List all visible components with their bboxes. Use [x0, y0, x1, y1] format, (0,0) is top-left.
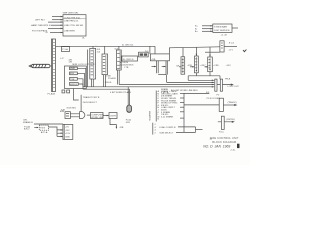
check mark annotation: [243, 50, 246, 52]
svg-text:42B: 42B: [61, 109, 65, 111]
F text: [91, 114, 104, 119]
P1 strip label: [48, 92, 56, 95]
E inner line: [63, 124, 65, 139]
svg-text:L-P: L-P: [60, 58, 64, 60]
label above long bus: [105, 82, 113, 84]
P1 strip inner line: [52, 39, 54, 92]
collector wire: [188, 75, 220, 77]
wire into U1 pin3: [48, 21, 63, 23]
connector P2 bars: [215, 79, 217, 91]
svg-text:TRAJECTORY B: TRAJECTORY B: [83, 96, 100, 99]
wire U3 to right: [224, 46, 237, 48]
U1 divider: [63, 18, 86, 20]
svg-text:+5 -18: +5 -18: [221, 34, 228, 36]
J2 row wires: [178, 126, 196, 128]
svg-text:LINE CTRL 4/B SM: LINE CTRL 4/B SM: [64, 25, 83, 27]
weapon cable W2: [127, 105, 132, 112]
svg-text:-15V: -15V: [65, 130, 70, 132]
label P1-A4 rows: [24, 125, 31, 130]
long bus wire 4: [83, 86, 214, 88]
node label box P1-A: [62, 47, 70, 52]
M1a text: [70, 68, 75, 70]
label at long wire end: [206, 92, 210, 94]
svg-text:+5V: +5V: [65, 126, 69, 128]
C2 text: [123, 59, 134, 61]
box U3 small output module: [220, 41, 224, 52]
svg-text:COND TRK B 4L: COND TRK B 4L: [64, 17, 81, 19]
svg-text:GUN SEL: GUN SEL: [67, 108, 77, 110]
wire to dashed box: [34, 127, 38, 129]
svg-text:A7C-A: A7C-A: [41, 131, 48, 134]
box G counter: [109, 113, 117, 119]
and gate G1: [80, 112, 85, 119]
D2 dark cells: [140, 53, 148, 55]
wire C1b drop to bus line2: [166, 75, 168, 83]
T7 output wire: [209, 72, 211, 76]
arrow label into T5: [176, 66, 180, 68]
label CR1 FRAME: [23, 120, 33, 124]
arrow label into T6: [188, 65, 193, 67]
bus drop to T2: [104, 46, 106, 54]
svg-text:MXR B: MXR B: [70, 84, 77, 86]
T1 label: [97, 49, 101, 51]
svg-text:(TRACK): (TRACK): [228, 101, 237, 104]
svg-text:NO. D JAN 1969: NO. D JAN 1969: [203, 145, 230, 149]
wire arrow into C1b drop a: [152, 66, 156, 68]
T7 pin marks: [209, 59, 211, 68]
svg-text:41B 4L: 41B 4L: [105, 82, 113, 84]
M1b text: [70, 73, 74, 75]
arrowheads at U2 pins: [210, 25, 212, 32]
svg-text:LOAD COMPL B: LOAD COMPL B: [159, 126, 176, 129]
title small code: [231, 149, 237, 151]
connector K1 track: [219, 98, 223, 111]
big box M1 mixer block: [65, 66, 87, 89]
power labels top right: [195, 25, 198, 33]
W2 labels below: [126, 118, 131, 124]
box F computer word line: [91, 113, 104, 119]
title line 2: [212, 140, 237, 144]
long bus wire 2: [167, 81, 215, 83]
arrowhead at G: [107, 115, 109, 117]
T2 bottom wires: [104, 75, 106, 87]
label Eout: [229, 41, 234, 44]
bus drop to C1: [149, 46, 151, 54]
svg-text:+15V: +15V: [226, 65, 232, 67]
M1 bottom terminal b: [67, 90, 70, 93]
label (SPARE): [226, 119, 235, 121]
T6 pin marks: [195, 59, 197, 69]
J2 pin rows: [155, 124, 177, 135]
svg-text:LINE FREQ 2L: LINE FREQ 2L: [64, 21, 79, 23]
wire into U1 pin2: [52, 19, 63, 21]
bus drop to T6: [195, 47, 197, 56]
svg-text:+5 V: +5 V: [228, 49, 233, 51]
wire into U1 pin1: [52, 16, 63, 18]
K1 out arrowhead: [234, 104, 237, 106]
connector K2 spare: [221, 116, 224, 129]
T1 pin marks: [91, 51, 93, 76]
label LTB: [125, 67, 129, 69]
bus drop to T5: [182, 48, 184, 57]
wire into U2 pin2: [202, 28, 213, 30]
box P4 select: [65, 112, 70, 119]
svg-text:P 1-A: P 1-A: [62, 48, 68, 51]
svg-text:BLOCK DIAGRAM: BLOCK DIAGRAM: [212, 140, 237, 144]
main bus wire top: [56, 45, 156, 47]
wire second feed to U3: [205, 51, 220, 53]
M1 staircase wire 3: [77, 79, 83, 87]
K2 out arrowhead: [232, 121, 235, 123]
svg-text:LEFT RLY: LEFT RLY: [35, 20, 46, 22]
net label line6: [46, 32, 49, 34]
T2 interior wire: [105, 55, 107, 74]
T3 interior wire: [119, 51, 121, 69]
wire from U2 output: [232, 27, 238, 29]
IC T7: [208, 57, 213, 72]
label WEAPON vertical: [148, 111, 151, 121]
long bus wire 1: [188, 79, 214, 81]
label P2-B top: [225, 79, 231, 81]
label GUN SEL: [67, 108, 77, 110]
arrowheads into P2 connector: [212, 80, 214, 88]
C1b marks: [151, 59, 155, 61]
title line 3: [203, 145, 230, 149]
J2 out stub: [196, 129, 203, 131]
svg-text:LOOP OUT: LOOP OUT: [228, 86, 240, 88]
U1 header label: [63, 13, 80, 15]
wire into U2 pin3: [202, 30, 213, 32]
C1b drop wires a: [156, 61, 158, 74]
label +5V: [228, 49, 233, 51]
dashed box D1: [39, 125, 48, 130]
wire into U1 pin6: [50, 32, 63, 34]
U1 internal row labels: [64, 17, 83, 32]
box C1b buffer: [150, 54, 169, 61]
E row text: [65, 126, 71, 138]
label GUN SELECT: [83, 102, 98, 104]
label TRAJECTORY SELECT: [83, 96, 100, 99]
label 42B: [120, 127, 124, 129]
svg-text:FRAME B: FRAME B: [23, 121, 33, 124]
svg-text:+15V: +15V: [65, 133, 71, 135]
P4 marks: [66, 113, 69, 116]
M1d text: [70, 84, 77, 86]
wire into U2 pin1: [202, 25, 213, 27]
wire K1 out: [223, 104, 235, 106]
IC T3: [116, 50, 121, 70]
label P2-C: [219, 131, 224, 133]
T2 pin marks: [103, 56, 105, 72]
label +15V: [226, 65, 232, 67]
svg-text:FIRE CONTROL UNIT: FIRE CONTROL UNIT: [210, 136, 239, 140]
wire into U1 pin5: [48, 27, 63, 29]
collector right drop: [219, 76, 221, 79]
label L-P: [60, 58, 64, 60]
net label FOOT BYPASS: [32, 29, 48, 32]
T6 interior wire: [195, 57, 197, 71]
svg-text:JUST SERVICE: JUST SERVICE: [214, 30, 230, 32]
K2 through wire: [218, 121, 233, 123]
T3 pin marks: [117, 53, 119, 69]
wire G1 out: [87, 114, 91, 116]
wire CR1 to E: [34, 123, 63, 125]
drop arrowheads: [196, 54, 211, 57]
wire down from M1: [74, 89, 79, 101]
sub box M1b: [70, 72, 78, 75]
long bus wire 3: [119, 84, 214, 86]
label (TRACK): [228, 101, 237, 104]
T1 interior wire: [93, 50, 95, 78]
label 42B arrow: [61, 109, 65, 111]
svg-text:P2-B COVER: P2-B COVER: [207, 98, 221, 100]
svg-text:P4 B: P4 B: [40, 128, 45, 130]
box D2 dark register: [139, 52, 149, 57]
arrow label into T7: [200, 65, 206, 67]
arrowheads at U1 pins: [61, 16, 63, 34]
J1 long wire to P2-B: [184, 92, 209, 94]
box U1 signal conditioner: [63, 15, 86, 36]
G text: [110, 115, 116, 117]
title line 1: [210, 136, 239, 140]
collector left drop: [187, 76, 189, 81]
bus drop to T1: [92, 46, 94, 48]
IC T5: [181, 57, 185, 74]
C1b drop wires b: [166, 61, 167, 75]
svg-text:4L CR13 4L: 4L CR13 4L: [122, 44, 134, 46]
bus labels: [95, 44, 149, 53]
svg-text:41B: 41B: [70, 73, 74, 75]
long bus wire 5: [83, 88, 130, 90]
svg-text:CNTR: CNTR: [110, 115, 116, 117]
T5 pin marks: [182, 59, 184, 72]
wire G routing down: [110, 119, 116, 129]
svg-text:2-1C.: 2-1C.: [231, 149, 237, 151]
label P2-B COVER: [207, 98, 221, 100]
P2 out arrowhead: [231, 84, 234, 86]
svg-text:A7C2: A7C2: [24, 128, 30, 131]
T5 interior wire: [182, 58, 184, 73]
T1 bottom wires: [92, 79, 94, 87]
svg-text:LTB: LTB: [125, 67, 129, 69]
faint label above bus: [122, 44, 134, 46]
P1-A text: [62, 48, 68, 51]
box E power dist: [63, 124, 73, 139]
routing arrowhead: [116, 127, 118, 129]
svg-text:P2-A1B: P2-A1B: [108, 77, 116, 80]
box C2 register: [122, 56, 138, 61]
pin list bracket J1: [155, 91, 157, 122]
label P2: [217, 94, 220, 96]
svg-text:GUN SELECT: GUN SELECT: [83, 102, 98, 104]
D1 text: [40, 128, 45, 130]
wire beside T1: [87, 50, 89, 87]
label right of T7: [213, 65, 219, 67]
wire arrow into C1b drop b: [162, 66, 166, 68]
svg-text:SMR: SMR: [70, 68, 75, 70]
svg-text:GND: GND: [65, 137, 70, 139]
wire into U1 pin4: [51, 24, 63, 26]
svg-text:SMR LENS SRL: SMR LENS SRL: [63, 13, 80, 15]
label 4 2-BUS MUX: [120, 65, 134, 67]
svg-text:42B: 42B: [120, 127, 124, 129]
label A7B: [60, 110, 65, 113]
P2 through wire: [217, 84, 232, 86]
U3 internal dots: [221, 43, 223, 49]
select bus vertical: [80, 95, 82, 112]
J1 pin rows: [158, 90, 179, 121]
J1 row tie wires: [180, 92, 184, 94]
wire into K1: [184, 104, 219, 106]
connector strip P1 left: [52, 39, 56, 92]
wires P4 to gate: [70, 114, 79, 117]
IC T6: [195, 56, 199, 73]
faint harness text row: [110, 89, 198, 94]
pin list bracket J2: [152, 123, 154, 135]
label A 2-BUS: [120, 61, 129, 64]
svg-text:41B: 41B: [151, 59, 155, 61]
svg-text:HAND THRUSTR N: HAND THRUSTR N: [31, 24, 51, 27]
svg-text:P2-C: P2-C: [219, 131, 224, 133]
sub box M1d: [70, 83, 79, 86]
J2 bracket: [195, 127, 197, 132]
D1 label below: [41, 131, 48, 134]
svg-text:WORD LINE: WORD LINE: [91, 117, 104, 119]
net label LEFT RLY: [35, 20, 46, 22]
U1 ref label UL: [82, 37, 86, 39]
svg-text:41B: 41B: [126, 122, 130, 124]
svg-text:WEAPON: WEAPON: [148, 111, 151, 121]
wire F to G: [103, 115, 109, 117]
svg-text:LINE RWR: LINE RWR: [64, 30, 75, 32]
P1 strip pin marks: [53, 42, 54, 88]
J1 top row: [161, 88, 169, 91]
M1 staircase wire 2: [77, 73, 84, 87]
bus drop to T7: [209, 47, 211, 57]
T6 output wire: [195, 73, 197, 76]
box U2 power supply: [213, 24, 232, 32]
weapon feed wires: [128, 87, 129, 105]
label LOOP OUT: [228, 86, 240, 88]
svg-text:4L CR13 S: 4L CR13 S: [123, 59, 134, 61]
svg-text:P1-A1B: P1-A1B: [48, 92, 56, 95]
M1 staircase wire 4: [78, 84, 83, 89]
svg-text:GUN SELECT: GUN SELECT: [159, 133, 174, 135]
U2 internal labels: [214, 26, 230, 32]
svg-text:(CNTRL): (CNTRL): [226, 119, 235, 121]
T3 bottom wires: [117, 70, 119, 85]
sub box M1a: [70, 67, 78, 70]
wire D1 to E feeds: [49, 127, 57, 136]
net label HAND THRUSTER: [31, 24, 51, 27]
svg-text:TXR: TXR: [70, 79, 75, 81]
labels above M1: [69, 59, 95, 66]
label +5 -18: [221, 34, 228, 36]
svg-text:MXR LOCK OUT GEN: MXR LOCK OUT GEN: [72, 64, 94, 66]
M1 staircase wire 1: [77, 68, 86, 87]
svg-text:E out: E out: [229, 41, 234, 44]
sub box M1c: [70, 78, 78, 81]
wire W1 to strip: [50, 65, 52, 67]
title stamp bar: [237, 144, 240, 148]
bus corner down to distribution: [155, 46, 220, 54]
svg-text:4.2L SPARE: 4.2L SPARE: [161, 115, 174, 118]
bus drop to T3: [118, 46, 120, 50]
svg-text:PR-B: PR-B: [225, 79, 231, 81]
arrowhead: [37, 127, 39, 129]
W1 left arrow tip: [29, 65, 32, 67]
IC T2: [102, 54, 108, 75]
IC T1: [90, 48, 96, 79]
M1c text: [70, 79, 75, 81]
svg-text:STNDB BAW: STNDB BAW: [214, 26, 228, 29]
E feed arrows: [57, 130, 63, 137]
J1 tie bus vertical: [183, 93, 185, 132]
M1 bottom terminal a: [62, 90, 65, 93]
drop join seg: [158, 74, 166, 76]
cable W1 to P1: [29, 64, 50, 67]
T7 interior wire: [209, 58, 211, 70]
mark 44: [210, 138, 213, 140]
svg-text:+CR5: +CR5: [213, 65, 219, 67]
